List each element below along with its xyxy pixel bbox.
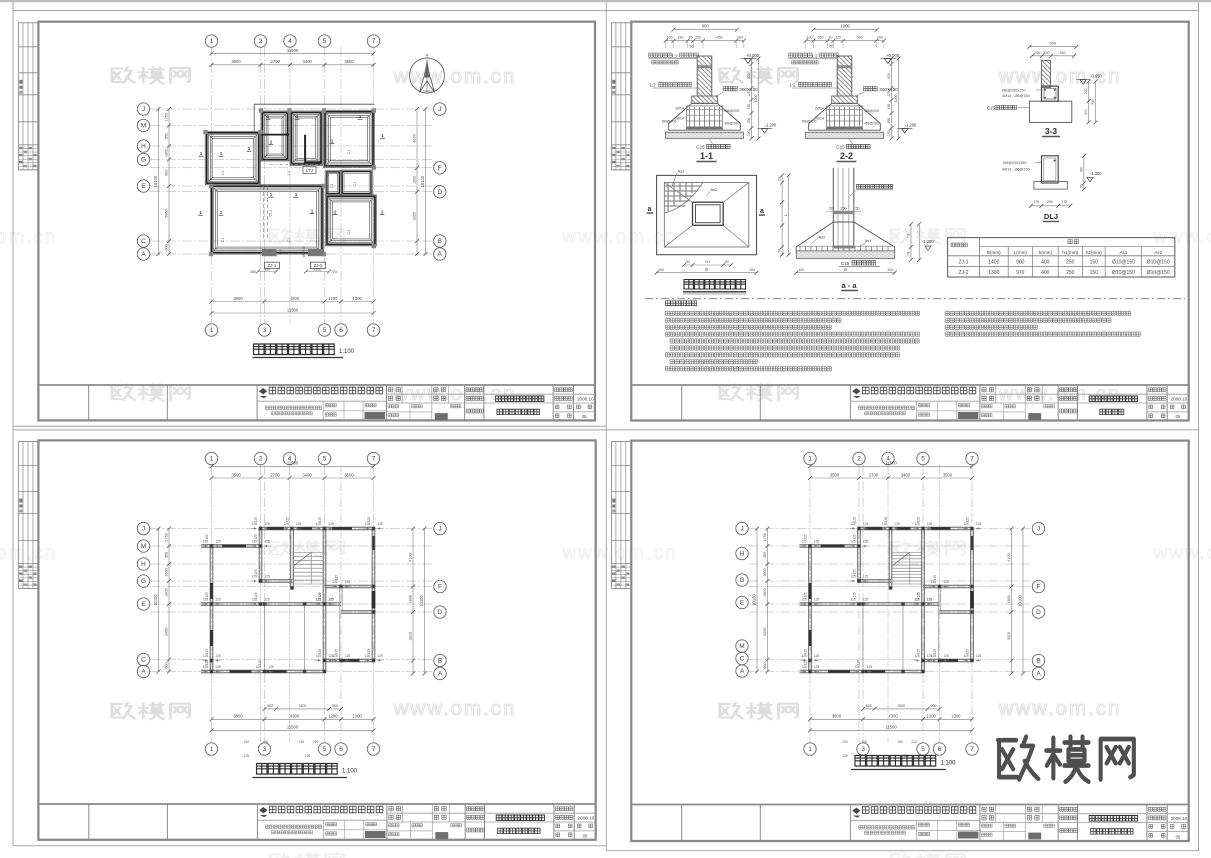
wall vertical axis 6 — [937, 587, 939, 661]
Q2 footing plan center column — [693, 202, 724, 225]
Q2 footing plan rebar mesh — [664, 185, 701, 187]
Q1 bottom dimension total — [212, 312, 374, 314]
svg-text:950: 950 — [264, 267, 270, 271]
svg-text:1200: 1200 — [927, 714, 937, 719]
svg-text:Ø10@150: Ø10@150 — [1147, 260, 1170, 266]
svg-text:125: 125 — [804, 649, 808, 655]
Q2 detail 3-3 column — [1042, 60, 1051, 87]
svg-text:125: 125 — [254, 592, 258, 598]
svg-text:1:100: 1:100 — [941, 761, 957, 767]
svg-text:300: 300 — [1084, 109, 1088, 115]
svg-text:1:2: 1:2 — [812, 54, 819, 59]
wall vertical axis 4 stair side — [888, 529, 890, 589]
Q1 foundation room top-mid — [290, 111, 323, 166]
svg-text:230: 230 — [1084, 88, 1088, 94]
svg-text:3320: 3320 — [412, 212, 416, 220]
svg-text:900: 900 — [1016, 260, 1025, 266]
grid bubbles left — [736, 522, 748, 534]
svg-text:F: F — [1037, 584, 1041, 591]
interior partition x3 — [264, 604, 266, 672]
svg-text:ZJ-1: ZJ-1 — [959, 260, 969, 266]
Q2 section 1-1 dimensions — [674, 29, 738, 31]
svg-text:6: 6 — [339, 746, 343, 753]
svg-text:4Ø14 , Ø6@150: 4Ø14 , Ø6@150 — [1002, 168, 1030, 172]
Q2 dashed separator — [645, 298, 1185, 300]
svg-text:h2(mm): h2(mm) — [1086, 250, 1102, 255]
svg-text:4100: 4100 — [1007, 553, 1011, 561]
svg-text:ZJ-2: ZJ-2 — [959, 270, 969, 276]
svg-text:1800: 1800 — [763, 568, 767, 576]
Q1 foundation room top-mid-left — [261, 111, 289, 161]
svg-text:125: 125 — [863, 522, 869, 526]
svg-text:5: 5 — [323, 456, 327, 463]
drawing name value — [497, 409, 540, 414]
svg-text:5: 5 — [323, 327, 327, 334]
svg-text:11500: 11500 — [885, 461, 897, 466]
svg-text:www.om.cn: www.om.cn — [1152, 543, 1211, 564]
svg-text:125: 125 — [804, 592, 808, 598]
sheet inner frame — [631, 22, 1188, 421]
svg-text:Ø8@200: Ø8@200 — [725, 122, 740, 126]
dark window bar right — [970, 591, 974, 608]
Q1 column ZJ-1 — [262, 249, 277, 256]
svg-text:1: 1 — [210, 746, 214, 753]
svg-text:J: J — [438, 526, 441, 533]
svg-text:h1(mm): h1(mm) — [1062, 250, 1078, 255]
svg-text:125: 125 — [367, 517, 371, 523]
svg-text:125: 125 — [318, 517, 322, 523]
Q2 section 1-1 footing step — [692, 96, 718, 103]
Q1 stair label LTJ — [303, 167, 316, 174]
svg-text:50: 50 — [690, 45, 694, 49]
svg-text:250: 250 — [747, 118, 751, 124]
svg-text:125: 125 — [927, 598, 933, 602]
wall along axis E — [800, 602, 940, 604]
svg-text:50: 50 — [686, 260, 690, 264]
svg-text:100: 100 — [737, 36, 743, 40]
svg-text:100: 100 — [667, 36, 673, 40]
company logo and name — [259, 388, 267, 394]
project name value — [496, 396, 544, 402]
svg-text:125: 125 — [215, 540, 221, 544]
svg-text:10100: 10100 — [1017, 595, 1022, 607]
Q2 detail DLJ base — [1034, 182, 1067, 190]
svg-text:7: 7 — [970, 456, 974, 463]
svg-text:Ø10@150: Ø10@150 — [1112, 260, 1135, 266]
svg-text:E: E — [141, 601, 146, 608]
Q2 detail 3-3 top dims — [1029, 46, 1076, 48]
svg-text:G: G — [141, 578, 146, 585]
svg-text:3: 3 — [263, 327, 267, 334]
project name value — [1089, 816, 1137, 822]
svg-text:10100: 10100 — [419, 595, 424, 607]
svg-text:250: 250 — [1066, 260, 1075, 266]
window bar on right wall — [372, 536, 375, 550]
svg-text:E: E — [740, 600, 745, 607]
svg-text:-1.200: -1.200 — [905, 123, 917, 128]
svg-text:125: 125 — [367, 649, 371, 655]
svg-text:D: D — [437, 189, 442, 196]
grid lines horizontal — [749, 528, 1032, 530]
svg-text:a: a — [648, 206, 652, 213]
svg-text:125: 125 — [328, 522, 334, 526]
svg-text:5: 5 — [921, 746, 925, 753]
svg-text:620: 620 — [887, 73, 891, 79]
svg-text:1800: 1800 — [412, 176, 416, 184]
Q1 left dimension chains — [158, 109, 160, 254]
svg-text:125: 125 — [318, 649, 322, 655]
svg-text:2700: 2700 — [270, 472, 280, 477]
svg-text:125: 125 — [205, 592, 209, 598]
dark window bar right — [372, 591, 376, 608]
svg-text:As1: As1 — [1119, 250, 1127, 255]
window bars on left wall — [210, 583, 213, 599]
svg-text:1:100: 1:100 — [339, 349, 355, 355]
wall segment G below stair — [261, 579, 293, 581]
svg-text:400: 400 — [1041, 270, 1050, 276]
grid bubbles left — [137, 522, 149, 534]
Q2 section 1-1 surface layer label — [649, 53, 673, 57]
wall along axis M top-left — [201, 544, 259, 546]
svg-text:125: 125 — [917, 517, 921, 523]
sheet inner frame — [38, 22, 595, 421]
right info cells — [555, 388, 573, 392]
Q2 section 2-2 dimensions — [814, 29, 878, 31]
svg-text:1300: 1300 — [951, 714, 961, 719]
Q2 section 2-2 wall column — [837, 56, 852, 103]
wall vertical axis 7 outer — [970, 529, 972, 662]
svg-text:125: 125 — [917, 649, 921, 655]
svg-text:3: 3 — [263, 746, 267, 753]
svg-text:50: 50 — [725, 260, 729, 264]
svg-text:125: 125 — [814, 598, 820, 602]
Q2 footing plan detail outer — [657, 175, 757, 254]
svg-text:600: 600 — [763, 662, 767, 668]
svg-text:C: C — [141, 238, 146, 245]
svg-text:7: 7 — [372, 38, 376, 45]
svg-text:50: 50 — [1079, 184, 1083, 188]
svg-text:240: 240 — [244, 740, 250, 744]
svg-text:540: 540 — [857, 36, 863, 40]
wall vertical axis 7 outer — [371, 529, 373, 662]
svg-text:125: 125 — [943, 580, 949, 584]
svg-text:4100: 4100 — [408, 553, 412, 561]
svg-text:L(mm): L(mm) — [1014, 250, 1028, 255]
Q4 drawing title 二层柱位布置图 — [855, 756, 936, 767]
Q1 bottom dimension segments — [212, 301, 374, 303]
svg-text:3500: 3500 — [344, 59, 354, 64]
Q2 elevation a-a column — [832, 168, 834, 249]
Q1 foundation small cell a — [326, 171, 341, 195]
svg-text:210: 210 — [313, 740, 319, 744]
svg-text:125: 125 — [205, 660, 209, 666]
svg-text:Z-1: Z-1 — [330, 183, 334, 188]
drawing name value — [498, 828, 541, 833]
svg-text:A: A — [740, 668, 745, 675]
svg-text:125: 125 — [917, 592, 921, 598]
svg-text:125: 125 — [215, 598, 221, 602]
svg-text:1200: 1200 — [894, 95, 898, 103]
svg-text:600: 600 — [164, 244, 168, 250]
wall along axis M top-left — [800, 544, 858, 546]
svg-text:D: D — [438, 609, 443, 616]
svg-text:As2: As2 — [1154, 250, 1162, 255]
Q2 section 1-1 C15 label — [709, 138, 714, 145]
svg-text:210: 210 — [911, 740, 917, 744]
svg-text:70: 70 — [689, 36, 693, 40]
svg-text:7: 7 — [372, 746, 376, 753]
svg-text:125: 125 — [804, 534, 808, 540]
svg-text:125: 125 — [268, 665, 274, 669]
stair treads — [893, 552, 922, 554]
grid lines vertical — [809, 465, 811, 742]
svg-text:125: 125 — [857, 660, 861, 666]
Q2 detail DLJ right dims — [1083, 156, 1085, 189]
svg-text:05: 05 — [582, 414, 587, 419]
svg-text:Ø8@200: Ø8@200 — [662, 120, 677, 124]
svg-text:3500: 3500 — [231, 59, 241, 64]
svg-text:1200: 1200 — [328, 714, 338, 719]
Q2 section 2-2 right dims — [891, 59, 893, 139]
Q2 section 2-2 footing body — [809, 103, 881, 130]
svg-text:h2: h2 — [906, 234, 910, 238]
svg-text:900: 900 — [931, 704, 937, 708]
wall along axis J — [858, 526, 973, 528]
svg-text:125: 125 — [853, 592, 857, 598]
svg-text:150: 150 — [747, 104, 751, 110]
svg-text:J: J — [142, 526, 145, 533]
svg-text:125: 125 — [842, 754, 848, 758]
svg-text:10100: 10100 — [751, 594, 756, 606]
Q1 grid lines horizontal — [150, 108, 433, 110]
svg-text:600: 600 — [1050, 41, 1057, 46]
svg-text:3400: 3400 — [901, 472, 911, 477]
svg-text:1:2: 1:2 — [789, 83, 796, 88]
svg-text:125: 125 — [205, 534, 209, 540]
Q1 grid bubbles bottom — [205, 324, 217, 336]
svg-text:3500: 3500 — [231, 472, 241, 477]
top dims — [212, 465, 374, 467]
svg-text:D: D — [1036, 609, 1041, 616]
svg-text:150: 150 — [1090, 260, 1099, 266]
svg-text:125: 125 — [814, 654, 820, 658]
svg-text:05: 05 — [1176, 414, 1181, 419]
Q2 detail 3-3 ring beam section — [1042, 86, 1059, 101]
svg-text:250: 250 — [1047, 200, 1053, 204]
owner and project name fields — [467, 807, 485, 811]
outer thin borders — [12, 2, 14, 846]
svg-text:125: 125 — [254, 534, 258, 540]
svg-text:3400: 3400 — [303, 59, 313, 64]
owner and project name fields — [1060, 807, 1078, 811]
wall vertical axis 4 stair side — [290, 529, 292, 589]
Q1 foundation room bottom-right — [326, 195, 377, 246]
svg-text:3320: 3320 — [1007, 632, 1011, 640]
owner and project name fields — [466, 388, 484, 392]
wall along axis A bottom — [800, 669, 924, 671]
Q2 table header — [951, 243, 967, 247]
svg-text:150: 150 — [887, 104, 891, 110]
svg-text:www.om.cn: www.om.cn — [0, 227, 58, 248]
grid bubbles top — [205, 452, 217, 464]
title block — [631, 384, 1188, 386]
svg-text:10100: 10100 — [420, 175, 425, 187]
svg-text:4100: 4100 — [412, 134, 416, 142]
svg-text:100: 100 — [749, 268, 755, 272]
bottom dims — [863, 708, 940, 710]
svg-text:4: 4 — [288, 38, 292, 45]
Q1 top dimension segments — [212, 64, 374, 66]
Q2 footing plan right dims — [781, 175, 783, 254]
svg-text:250: 250 — [1066, 270, 1075, 276]
extra dark bar bottom-left wall — [865, 670, 885, 673]
Q1 grid bubbles top — [205, 35, 217, 47]
svg-text:1: 1 — [808, 746, 812, 753]
svg-text:G: G — [739, 577, 744, 584]
svg-text:J: J — [1037, 526, 1040, 533]
svg-text:1800: 1800 — [164, 588, 168, 596]
Q2 elevation damp label — [856, 184, 892, 188]
wall along axis J — [259, 526, 374, 528]
svg-text:3-3: 3-3 — [1045, 126, 1058, 136]
svg-text:125: 125 — [345, 654, 351, 658]
grid bubbles right — [434, 522, 446, 534]
svg-text:125: 125 — [264, 575, 270, 579]
wall vertical axis 2 — [258, 529, 260, 582]
svg-text:150: 150 — [1090, 270, 1099, 276]
svg-text:C15: C15 — [987, 106, 995, 111]
Q1 foundation room bottom-left large — [210, 185, 323, 254]
svg-text:125: 125 — [966, 649, 970, 655]
svg-text:H: H — [141, 143, 146, 150]
svg-text:1:2: 1:2 — [649, 83, 656, 88]
svg-text:7: 7 — [970, 746, 974, 753]
svg-text:-0.650: -0.650 — [1090, 74, 1102, 79]
svg-text:600: 600 — [164, 662, 168, 668]
sheet inner frame — [38, 440, 595, 839]
grid bubbles bottom — [804, 743, 816, 755]
svg-text:2700: 2700 — [271, 59, 281, 64]
svg-text:125: 125 — [318, 592, 322, 598]
svg-text:Ø6@200x350: Ø6@200x350 — [1003, 161, 1027, 165]
svg-text:A: A — [438, 251, 443, 258]
svg-text:600: 600 — [267, 704, 273, 708]
svg-text:1300: 1300 — [988, 270, 999, 276]
wall segment G below stair — [859, 579, 891, 581]
svg-text:125: 125 — [377, 522, 383, 526]
svg-text:350: 350 — [763, 552, 767, 558]
Q1 top outer footing edge — [254, 103, 374, 105]
svg-text:125: 125 — [254, 517, 258, 523]
svg-text:50: 50 — [829, 207, 833, 211]
svg-text:50: 50 — [778, 177, 782, 181]
svg-text:125: 125 — [335, 649, 339, 655]
lower staff cells — [409, 403, 411, 420]
svg-text:3: 3 — [861, 746, 865, 753]
svg-text:-1.300: -1.300 — [1090, 171, 1102, 176]
svg-text:125: 125 — [264, 598, 270, 602]
project small text — [265, 825, 321, 829]
svg-text:2008.10: 2008.10 — [1171, 816, 1188, 821]
svg-text:Ø8@200: Ø8@200 — [802, 120, 817, 124]
svg-text:125: 125 — [244, 754, 250, 758]
svg-text:Z-1: Z-1 — [287, 237, 291, 242]
wall along axis F right — [325, 584, 374, 586]
svg-text:Z-1: Z-1 — [287, 170, 291, 175]
Q2 notes header — [665, 301, 696, 306]
sheet inner frame — [631, 441, 1188, 841]
svg-text:125: 125 — [215, 654, 221, 658]
svg-text:B: B — [844, 267, 847, 272]
svg-text:1400: 1400 — [988, 260, 999, 266]
svg-text:120: 120 — [887, 91, 891, 97]
svg-text:11500: 11500 — [287, 308, 299, 313]
Q2 section 1-1 footing body — [669, 103, 741, 130]
svg-text:125: 125 — [345, 580, 351, 584]
window bar on right wall — [971, 536, 974, 550]
svg-text:Z-1: Z-1 — [353, 181, 357, 186]
Q2 footing plan diagonals — [664, 183, 692, 203]
svg-text:www.om.cn: www.om.cn — [393, 697, 517, 720]
svg-text:11500: 11500 — [885, 725, 897, 730]
svg-text:4300: 4300 — [290, 714, 300, 719]
svg-text:J: J — [142, 106, 145, 113]
svg-text:240: 240 — [842, 740, 848, 744]
title block — [38, 803, 595, 805]
review field labels — [994, 805, 996, 823]
svg-text:C: C — [141, 657, 146, 664]
svg-text:100: 100 — [807, 36, 813, 40]
svg-text:1300: 1300 — [353, 714, 363, 719]
Q2 footing plan title 基础平面详图 — [684, 280, 746, 290]
Q2 section 1-1 brick base label — [724, 87, 738, 91]
svg-text:125: 125 — [286, 517, 290, 523]
svg-text:310: 310 — [678, 36, 684, 40]
svg-text:4300: 4300 — [888, 714, 898, 719]
review field labels — [401, 385, 403, 403]
svg-text:b(mm): b(mm) — [1039, 250, 1053, 255]
svg-text:100: 100 — [747, 130, 751, 136]
svg-text:C15: C15 — [841, 261, 850, 266]
svg-text:3500: 3500 — [943, 472, 953, 477]
svg-text:125: 125 — [205, 649, 209, 655]
svg-text:1800: 1800 — [164, 149, 168, 157]
svg-text:125: 125 — [884, 517, 888, 523]
svg-text:M: M — [141, 543, 146, 550]
svg-text:2700: 2700 — [869, 472, 879, 477]
svg-text:2Ø14: 2Ø14 — [815, 107, 824, 111]
svg-text:2008.10: 2008.10 — [577, 397, 594, 402]
company logo and name — [852, 808, 860, 814]
watermark 欧模网 row5 left — [111, 703, 189, 720]
wall along axis B bottom right — [325, 658, 374, 660]
window bars on left wall — [809, 583, 812, 599]
wall vertical axis 6 — [339, 587, 341, 661]
svg-text:05: 05 — [583, 833, 588, 838]
svg-text:150: 150 — [861, 740, 867, 744]
svg-text:125: 125 — [853, 517, 857, 523]
svg-text:3320: 3320 — [408, 632, 412, 640]
svg-text:www.om.cn: www.om.cn — [561, 227, 677, 248]
review field labels — [994, 385, 996, 403]
svg-text:125: 125 — [943, 654, 949, 658]
title block — [631, 804, 1188, 806]
svg-text:720: 720 — [331, 270, 337, 274]
svg-text:125: 125 — [933, 575, 937, 581]
svg-text:450: 450 — [279, 249, 283, 255]
svg-text:3800: 3800 — [832, 714, 842, 719]
svg-text:240: 240 — [1034, 51, 1040, 55]
